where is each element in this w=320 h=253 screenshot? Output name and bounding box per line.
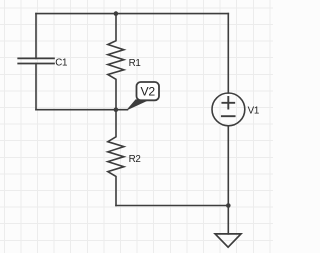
junction node at R1/R2 (net V2) bbox=[114, 107, 119, 112]
svg-text:V1: V1 bbox=[248, 105, 259, 116]
wire middle rail bbox=[36, 109, 127, 111]
wire left branch lower segment bbox=[35, 64, 37, 110]
wire V1 top segment bbox=[227, 14, 229, 93]
junction node at ground bbox=[226, 203, 231, 208]
capacitor C1 bbox=[18, 58, 54, 63]
junction node at R1 top bbox=[114, 11, 119, 16]
resistor R2 bbox=[108, 110, 124, 206]
ground bbox=[215, 234, 241, 247]
wire V1 bottom segment bbox=[227, 126, 229, 234]
svg-text:V2: V2 bbox=[141, 85, 156, 99]
probe callout V2 tail bbox=[128, 100, 149, 110]
voltage source V1 bbox=[212, 93, 245, 126]
svg-text:R2: R2 bbox=[129, 154, 141, 165]
wire left branch upper segment bbox=[35, 14, 37, 59]
svg-text:C1: C1 bbox=[55, 58, 67, 69]
svg-text:R1: R1 bbox=[129, 58, 141, 69]
resistor R1 bbox=[108, 14, 124, 110]
wire bottom rail bbox=[116, 205, 228, 207]
wire top rail bbox=[36, 13, 228, 15]
probe callout V2 box bbox=[137, 82, 160, 100]
